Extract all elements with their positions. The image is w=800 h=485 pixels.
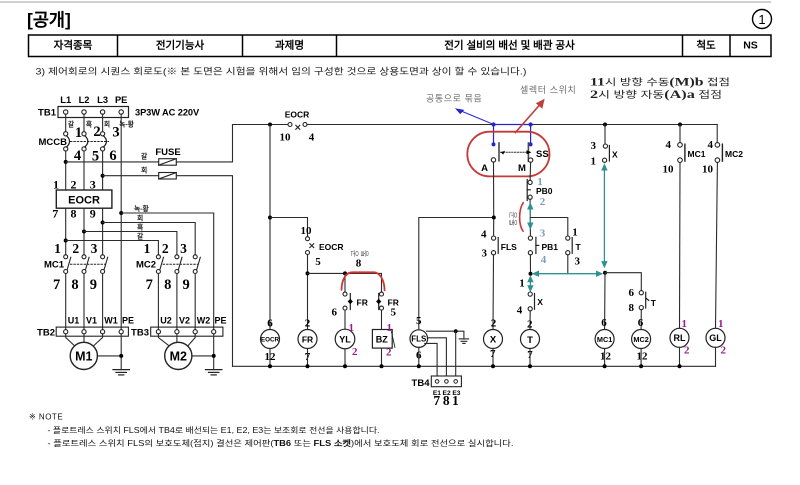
- wire MC2 aux to GL: [716, 163, 718, 329]
- svg-text:7: 7: [146, 277, 153, 293]
- svg-text:흑: 흑: [137, 222, 144, 231]
- svg-text:2: 2: [162, 241, 169, 256]
- wire EOCR.L2 down to MC1: [83, 208, 85, 255]
- lamp RL: [670, 318, 690, 357]
- svg-text:7: 7: [52, 207, 58, 221]
- node PE branch: [119, 211, 123, 215]
- node auto (A): [492, 216, 496, 220]
- bottom rail: [233, 365, 716, 367]
- terminal block TB2: [37, 327, 128, 338]
- svg-text:3: 3: [90, 177, 96, 191]
- wire L2 branch to MC2 pole2: [84, 232, 177, 255]
- svg-text:전기기능사: 전기기능사: [156, 38, 205, 51]
- wire PE branch to TB3.PE: [121, 213, 214, 330]
- svg-text:MC1: MC1: [688, 149, 706, 159]
- svg-text:4: 4: [309, 132, 315, 144]
- wire GL to bottom rail: [715, 347, 717, 366]
- selector switch SS: [481, 143, 549, 174]
- svg-text:9: 9: [90, 207, 96, 221]
- svg-text:12: 12: [600, 350, 612, 362]
- wires TB3 to motor M2: [158, 334, 195, 346]
- teal arrow interlock run: [533, 272, 601, 276]
- svg-text:6: 6: [629, 287, 635, 299]
- svg-text:- 플로트레스 스위치 FLS에서 TB4로 배선: - 플로트레스 스위치 FLS에서 TB4로 배선되는 E1, E2, E3는 …: [48, 425, 380, 435]
- svg-text:EOCR: EOCR: [285, 110, 310, 120]
- node interlock (below PB1): [529, 272, 533, 276]
- terminal block TB1: [38, 107, 128, 119]
- wire L3 branch to MC2 pole3: [103, 223, 196, 255]
- svg-text:2: 2: [72, 241, 79, 256]
- wire MC1 coil to bottom rail: [604, 349, 606, 367]
- wire MC1 pole1 to TB2: [65, 274, 67, 330]
- svg-text:회: 회: [141, 165, 147, 174]
- node L2 branch: [82, 230, 86, 234]
- svg-text:8: 8: [71, 277, 78, 293]
- MC2 pin numbers 7 8 9: [146, 277, 190, 293]
- svg-text:4: 4: [708, 139, 714, 151]
- svg-text:A: A: [481, 163, 488, 174]
- svg-text:M1: M1: [75, 350, 92, 364]
- node rail-X contact: [603, 123, 607, 127]
- node L3 branch: [101, 221, 105, 225]
- svg-text:6: 6: [267, 317, 273, 329]
- svg-text:PE: PE: [214, 316, 226, 326]
- TB4 labels E1 E2 E3: [433, 390, 461, 397]
- svg-text:11시 방향 수동(M)b 접점: 11시 방향 수동(M)b 접점: [590, 75, 730, 89]
- motor M1: [70, 342, 97, 369]
- svg-text:2: 2: [93, 124, 100, 140]
- svg-text:통: 통: [361, 249, 370, 257]
- svg-text:12: 12: [637, 350, 649, 362]
- node E3/ground: [454, 329, 458, 333]
- wire TB1.L1 to MCCB: [65, 114, 67, 132]
- wire E3 down to TB4: [455, 331, 457, 379]
- wire MCCB.L2 to EOCR: [83, 151, 85, 190]
- blue node A feed: [491, 122, 495, 126]
- svg-text:1: 1: [387, 322, 393, 334]
- svg-text:7: 7: [53, 277, 60, 293]
- wire MCCB.L3 to EOCR: [102, 151, 104, 190]
- wire node to MC1 coil: [604, 273, 606, 330]
- svg-text:MCCB: MCCB: [39, 137, 68, 148]
- svg-text:9: 9: [90, 277, 97, 293]
- wire TB1.L3 to MCCB: [102, 114, 104, 132]
- node M1 PE: [119, 354, 123, 358]
- svg-text:EOCR: EOCR: [319, 242, 344, 252]
- wire BZ to bottom rail: [381, 348, 383, 366]
- svg-text:V1: V1: [86, 316, 97, 326]
- contact EOCR b (pins 10-5): [301, 225, 344, 268]
- wire MC2 pole1 to TB3: [157, 274, 159, 330]
- svg-text:MC1: MC1: [597, 335, 612, 344]
- svg-text:8: 8: [443, 393, 450, 408]
- svg-text:1: 1: [572, 226, 578, 238]
- selector switch SS feed A (blue): [492, 125, 496, 147]
- wire TB1.PE down to TB2.PE: [120, 114, 122, 329]
- TB4 pin numbers 7 8 1: [433, 393, 459, 408]
- svg-text:W2: W2: [197, 316, 211, 326]
- svg-text:회: 회: [104, 120, 110, 129]
- svg-text:2: 2: [71, 177, 77, 191]
- svg-text:3P3W AC 220V: 3P3W AC 220V: [135, 107, 200, 117]
- node EOCR branch: [268, 216, 272, 220]
- header table text: [54, 38, 758, 51]
- top rail (right of EOCR contact): [307, 124, 717, 126]
- svg-text:1: 1: [718, 318, 724, 330]
- wire fuse F1 to top rail: [176, 125, 232, 162]
- MC1 pin numbers 7 8 9: [53, 277, 97, 293]
- TB3 terminal labels U2 V2 W2 PE: [160, 316, 226, 326]
- wire M1 frame to PE: [97, 355, 121, 357]
- svg-text:FUSE: FUSE: [155, 147, 180, 158]
- MCCB pin numbers 4 5 6: [74, 148, 117, 165]
- coil FR: [298, 317, 317, 363]
- wire MC2 pole3 to TB3: [194, 274, 196, 330]
- svg-text:FLS: FLS: [411, 335, 427, 344]
- red common bracket annotation: [342, 272, 385, 290]
- wire EOCR.L3 down to MC1: [102, 208, 104, 255]
- breaker MCCB: [39, 132, 109, 151]
- svg-text:- 플로트레스 스위치 FLS의 보호도체(접지): - 플로트레스 스위치 FLS의 보호도체(접지) 결선은 제어판(TB6 또는…: [48, 438, 514, 448]
- node L3-fuse2: [101, 174, 105, 178]
- svg-text:1: 1: [519, 278, 525, 290]
- svg-text:4: 4: [666, 139, 672, 151]
- svg-text:과제명: 과제명: [275, 38, 304, 51]
- svg-text:FR: FR: [302, 334, 313, 344]
- buzzer BZ: [372, 322, 395, 359]
- svg-text:10: 10: [702, 163, 714, 175]
- svg-text:1: 1: [144, 241, 151, 256]
- svg-text:M: M: [518, 163, 526, 174]
- contact EOCR b (on rail, pins 10-4): [280, 110, 315, 144]
- svg-text:3: 3: [180, 241, 187, 256]
- contact X a (pins 3-1, from rail): [591, 125, 619, 168]
- svg-text:PB1: PB1: [542, 242, 559, 252]
- terminal block TB4: [412, 376, 462, 389]
- teal arrow node to X contact: [528, 277, 532, 291]
- MC1 pin numbers 1 2 3: [54, 241, 98, 256]
- wire X contact to T coil: [529, 311, 531, 330]
- svg-text:FR: FR: [357, 297, 368, 307]
- selector switch SS feed M (blue): [529, 125, 533, 147]
- svg-text:※ NOTE: ※ NOTE: [29, 413, 63, 422]
- wire M2 frame to PE: [192, 355, 214, 357]
- wire L3 to fuse F2: [103, 175, 159, 177]
- wire RL to bottom rail: [679, 347, 681, 366]
- contact FLS (pins 4-3): [481, 228, 517, 259]
- label 공통 (rotated, FR bracket): [351, 249, 370, 257]
- svg-text:L2: L2: [79, 95, 90, 105]
- MCCB pin numbers 1 2 3: [75, 124, 120, 141]
- svg-text:3: 3: [591, 140, 597, 152]
- lamp YL: [335, 322, 358, 358]
- wire FLS coil feeder (from auto node): [419, 218, 494, 330]
- svg-text:RL: RL: [674, 333, 686, 343]
- ground (M2): [206, 370, 222, 375]
- wire M contact to PB0: [529, 162, 532, 180]
- wire FR coil to bottom rail: [307, 349, 309, 367]
- wire TB3.PE down: [213, 334, 215, 370]
- wire L1 branch to MC2 pole1: [66, 241, 159, 255]
- svg-text:3: 3: [575, 256, 581, 268]
- node FR coil branch: [306, 271, 310, 275]
- svg-text:W1: W1: [104, 316, 118, 326]
- wire FLS contact to X coil: [492, 255, 495, 330]
- label 공통 (rotated, PB0): [509, 211, 518, 227]
- wires TB2 to motor M1: [66, 334, 103, 346]
- svg-text:EOCR: EOCR: [68, 195, 100, 207]
- wire manual node to T contact column: [530, 218, 567, 237]
- svg-text:2: 2: [527, 318, 533, 330]
- svg-text:T: T: [527, 335, 533, 346]
- wire FLS E1 line to TB4: [425, 343, 437, 379]
- coil FLS: [410, 315, 428, 362]
- svg-text:7: 7: [433, 393, 440, 408]
- svg-text:3: 3: [112, 125, 119, 141]
- svg-text:6: 6: [601, 317, 607, 329]
- svg-text:전기 설비의 배선 및 배관 공사: 전기 설비의 배선 및 배관 공사: [444, 38, 575, 51]
- contact FR (above YL, pin 6): [332, 292, 368, 318]
- svg-text:L1: L1: [60, 95, 71, 105]
- motor M2: [165, 342, 192, 369]
- blue node M feed: [529, 122, 533, 126]
- svg-text:PE: PE: [122, 316, 134, 326]
- wire EOCR coil to bottom rail: [269, 349, 271, 367]
- svg-text:GL: GL: [709, 333, 722, 343]
- wire node to T delayed contact: [605, 273, 641, 291]
- node MC1 coil feed: [603, 271, 607, 275]
- svg-text:[공개]: [공개]: [27, 10, 71, 30]
- contactor MC1 main contacts: [44, 255, 108, 274]
- red arrow to 셀렉터 스위치: [515, 100, 543, 132]
- svg-text:X: X: [537, 297, 543, 307]
- svg-text:FLS: FLS: [501, 242, 517, 252]
- svg-text:NS: NS: [743, 39, 758, 51]
- wire FLS to bottom rail: [418, 347, 420, 366]
- svg-text:5: 5: [391, 307, 397, 319]
- svg-text:자격종목: 자격종목: [54, 38, 93, 51]
- teal arrow X-1 to MC1 node: [602, 165, 606, 267]
- svg-text:YL: YL: [339, 334, 351, 344]
- svg-text:1: 1: [75, 125, 82, 141]
- svg-text:2: 2: [386, 346, 392, 358]
- svg-text:공: 공: [351, 249, 360, 257]
- svg-text:통: 통: [509, 218, 518, 226]
- pushbutton PB1 (a-contact, pins 3-4): [528, 228, 558, 266]
- wire L1 to fuse F1: [66, 161, 159, 163]
- wire MCCB.L1 to EOCR: [65, 151, 67, 190]
- wire TB1.L2 to MCCB: [83, 114, 85, 132]
- svg-text:척도: 척도: [696, 38, 716, 51]
- svg-text:5: 5: [315, 256, 321, 268]
- node L1-fuse1: [64, 160, 68, 164]
- svg-text:M2: M2: [170, 350, 187, 364]
- svg-text:8: 8: [356, 257, 362, 269]
- svg-text:1: 1: [349, 322, 355, 334]
- svg-text:1: 1: [591, 156, 597, 168]
- svg-text:8: 8: [164, 277, 171, 293]
- wire T coil to bottom rail: [529, 349, 531, 367]
- svg-text:1: 1: [54, 241, 61, 256]
- svg-text:SS: SS: [536, 149, 549, 160]
- svg-text:2: 2: [540, 196, 546, 208]
- teal arrow PB0-2 to manual node: [528, 204, 532, 228]
- contact MC2 aux (pins 4-10): [702, 139, 743, 176]
- svg-text:PB0: PB0: [536, 186, 553, 196]
- svg-text:BZ: BZ: [376, 335, 388, 345]
- node YL column: [343, 271, 347, 275]
- svg-text:T: T: [651, 298, 657, 308]
- svg-text:1: 1: [682, 318, 688, 330]
- terminal block TB3: [131, 327, 223, 338]
- svg-text:T: T: [576, 242, 582, 252]
- svg-text:4: 4: [541, 254, 547, 266]
- svg-text:V2: V2: [179, 316, 190, 326]
- coil MC1: [595, 317, 614, 363]
- svg-text:2: 2: [491, 318, 497, 330]
- svg-text:TB1: TB1: [38, 108, 57, 119]
- red bracket (PB0 common): [520, 203, 524, 232]
- svg-text:6: 6: [638, 317, 644, 329]
- page number circle 1: [753, 10, 772, 29]
- pushbutton PB0 (b-contact, pins 1-2): [527, 176, 553, 208]
- header table: [29, 35, 772, 57]
- node M2 PE: [212, 354, 216, 358]
- wire MC2 coil to bottom rail: [640, 349, 642, 367]
- svg-text:회: 회: [137, 213, 143, 222]
- svg-text:TB2: TB2: [37, 328, 55, 339]
- svg-text:공: 공: [509, 211, 518, 219]
- svg-text:5: 5: [416, 315, 422, 327]
- svg-text:TB3: TB3: [131, 328, 149, 339]
- coil X: [484, 318, 503, 361]
- svg-text:MC2: MC2: [136, 260, 156, 271]
- wire distribution to YL / BZ columns: [308, 273, 382, 292]
- wire EOCR.L1 down to MC1: [65, 208, 67, 255]
- contactor MC2 main contacts: [136, 255, 200, 274]
- svg-text:셀렉터 스위치: 셀렉터 스위치: [520, 84, 576, 95]
- svg-text:10: 10: [301, 225, 313, 237]
- wire A node to FLS contact: [493, 220, 495, 237]
- svg-text:L3: L3: [97, 95, 108, 105]
- TB2 terminal labels U1 V1 W1 PE: [68, 316, 134, 326]
- wire TB2.PE down: [120, 334, 122, 370]
- blue common jumper on rail: [494, 124, 531, 126]
- wire YL column to FR contact: [344, 273, 346, 292]
- svg-text:2시 방향 자동(A)a 접점: 2시 방향 자동(A)a 접점: [590, 87, 722, 101]
- wire A contact down to auto node: [493, 162, 495, 217]
- ground (M1): [113, 370, 129, 375]
- svg-text:2: 2: [305, 317, 311, 329]
- svg-text:흑: 흑: [86, 120, 93, 129]
- wire FR contact to BZ: [381, 310, 383, 329]
- wire MC2 pole2 to TB3: [176, 274, 178, 330]
- ground (FLS): [459, 339, 468, 344]
- wire FLS E2 line to TB4: [427, 338, 446, 380]
- relay EOCR (main block): [56, 190, 112, 208]
- wire color labels under TB1: [68, 120, 135, 129]
- svg-text:공통으로 묶음: 공통으로 묶음: [426, 94, 482, 104]
- svg-text:8: 8: [71, 207, 77, 221]
- node L1 branch: [64, 239, 68, 243]
- svg-text:U2: U2: [160, 316, 172, 326]
- node rail-MC1 aux: [678, 123, 682, 127]
- svg-text:4: 4: [517, 305, 523, 317]
- top rail (left of EOCR contact): [233, 124, 289, 126]
- svg-text:3) 제어회로의 시퀀스 회로도(※ 본 도면은: 3) 제어회로의 시퀀스 회로도(※ 본 도면은 시험을 위해서 임의 구성한 …: [36, 66, 527, 77]
- wire X coil to bottom rail: [492, 349, 494, 367]
- svg-text:1: 1: [452, 393, 459, 408]
- bottom rail junction nodes: [268, 364, 682, 368]
- wire PB0 to PB1: [529, 199, 531, 236]
- red oval around selector switch: [467, 132, 549, 177]
- MC2 pin numbers 1 2 3: [144, 241, 188, 256]
- wire FLS E3 line to ground/TB4: [427, 331, 464, 339]
- wire T contact to interlock run: [567, 255, 569, 274]
- contact T (pins 1-3, beside PB1): [566, 226, 582, 267]
- contact FR (above BZ, pin 5): [376, 292, 399, 318]
- svg-text:X: X: [612, 149, 618, 159]
- svg-text:10: 10: [663, 163, 675, 175]
- wire MC1 pole2 to TB2: [83, 274, 85, 330]
- svg-text:6: 6: [332, 307, 338, 319]
- contact MC1 aux (pins 4-10): [663, 125, 706, 176]
- node rail-EOCR coil: [268, 123, 272, 127]
- svg-text:MC1: MC1: [44, 260, 65, 271]
- svg-text:9: 9: [182, 277, 189, 293]
- wire YL to bottom rail: [344, 349, 346, 367]
- page top border line: [0, 1, 771, 3]
- TB1 terminal labels L1 L2 L3 PE: [60, 95, 127, 105]
- svg-text:갈: 갈: [141, 152, 148, 161]
- contact T delayed (pins 6-8, above MC2): [629, 287, 657, 314]
- svg-text:1: 1: [53, 177, 59, 191]
- svg-text:1: 1: [758, 12, 765, 27]
- svg-text:MC2: MC2: [725, 149, 743, 159]
- svg-text:10: 10: [280, 132, 292, 144]
- wire rail corner to MC2 aux: [716, 125, 718, 143]
- fuse F1: [159, 159, 177, 166]
- svg-text:EOCR: EOCR: [261, 337, 280, 344]
- wire PB1 to interlock node: [529, 255, 531, 274]
- coil EOCR (control): [261, 317, 280, 363]
- svg-text:2: 2: [721, 345, 727, 357]
- lamp GL: [706, 318, 727, 357]
- svg-text:2: 2: [684, 345, 690, 357]
- svg-text:2: 2: [352, 346, 358, 358]
- wire EOCR coil column upper: [269, 125, 271, 330]
- svg-text:갈: 갈: [137, 231, 144, 240]
- svg-text:녹-황: 녹-황: [134, 204, 150, 213]
- wire MC1 pole3 to TB2: [102, 274, 104, 330]
- fuse F2: [159, 173, 177, 180]
- wire MC1 aux to RL: [679, 163, 682, 329]
- contact X (pins 1-4, above T coil): [517, 278, 544, 317]
- svg-text:4: 4: [481, 228, 487, 240]
- blue arrow to 공통으로 묶음: [456, 109, 492, 124]
- svg-text:갈: 갈: [68, 120, 75, 129]
- wire T contact to MC2 coil: [640, 310, 642, 330]
- svg-text:TB4: TB4: [412, 378, 431, 389]
- EOCR pin numbers 1 2 3: [53, 177, 96, 191]
- coil T (timer): [521, 318, 540, 361]
- svg-text:3: 3: [91, 241, 98, 256]
- svg-text:MC2: MC2: [633, 335, 648, 344]
- svg-text:3: 3: [482, 248, 488, 260]
- svg-text:PE: PE: [115, 95, 127, 105]
- wire fuse F2 to bottom rail: [176, 176, 232, 367]
- svg-text:8: 8: [629, 302, 635, 314]
